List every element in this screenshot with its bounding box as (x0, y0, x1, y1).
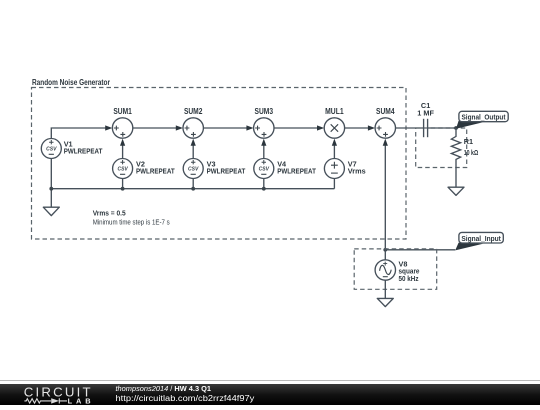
junction node V2-rail (121, 187, 125, 191)
wire to Signal_Input (385, 249, 455, 251)
arrowhead into SUM3 left (246, 125, 253, 130)
voltage source V7 (324, 159, 344, 179)
label V2 PWLREPEAT (136, 160, 175, 176)
wire bottom rail (51, 188, 334, 190)
label V7 Vrms (348, 160, 366, 176)
voltage source V3 (CSV) (183, 159, 203, 179)
wire MUL1 to SUM4 (345, 127, 369, 129)
wire V7 bottom to rail corner (333, 179, 335, 189)
label SUM4 (376, 107, 395, 116)
logo CIRCUIT text (24, 384, 91, 399)
wire SUM4 to C1 (396, 127, 424, 129)
svg-text:PWLREPEAT: PWLREPEAT (277, 166, 316, 175)
wire V8 bottom to ground (384, 280, 386, 298)
wire V3 bottom to rail (192, 179, 194, 189)
svg-text:50 kHz: 50 kHz (399, 274, 419, 283)
voltage source V2 (CSV) (113, 159, 133, 179)
capacitor C1 (424, 119, 428, 137)
label SUM3 (255, 107, 274, 116)
svg-text:CSV: CSV (259, 167, 270, 173)
junction node output (454, 126, 458, 130)
svg-text:PWLREPEAT: PWLREPEAT (136, 166, 175, 175)
flag Signal_Output (456, 111, 508, 129)
label SUM2 (184, 107, 203, 116)
dashed box around V8 (354, 249, 437, 289)
arrowhead into SUM4 left (368, 125, 375, 130)
wire V2 to SUM1 bottom (122, 145, 124, 159)
svg-text:http://circuitlab.com/cb2rrzf4: http://circuitlab.com/cb2rrzf44f97y (116, 394, 255, 403)
wire V7 to MUL1 bottom (333, 145, 335, 159)
svg-text:Random Noise Generator: Random Noise Generator (32, 77, 110, 87)
label V1 PWLREPEAT (64, 140, 103, 156)
wire C1 to output node (428, 127, 456, 129)
label V3 PWLREPEAT (207, 160, 246, 176)
junction node V8 top (383, 248, 387, 252)
svg-text:SUM2: SUM2 (184, 107, 203, 116)
svg-text:Vrms = 0.5: Vrms = 0.5 (93, 209, 126, 218)
wire V1 top to SUM1 (51, 128, 106, 138)
dashed box Random Noise Generator (32, 88, 407, 240)
wire SUM2 to SUM3 (203, 127, 247, 129)
svg-text:thompsons2014 / HW 4.3 Q1: thompsons2014 / HW 4.3 Q1 (116, 384, 212, 393)
ground under R1 (448, 187, 464, 195)
flag Signal_Input (455, 232, 503, 250)
arrowhead into SUM1 left (105, 125, 112, 130)
wire V4 bottom to rail (263, 179, 265, 189)
wire SUM1 to SUM2 (133, 127, 177, 129)
summing block SUM3 (254, 118, 274, 138)
footer separator line (0, 380, 540, 382)
svg-text:SUM4: SUM4 (376, 107, 395, 116)
arrowhead into MUL1 bottom (332, 139, 337, 146)
wire SUM3 to MUL1 (274, 127, 318, 129)
svg-text:10 kΩ: 10 kΩ (464, 148, 479, 157)
wire V1 bottom to ground (50, 159, 52, 208)
multiplier block MUL1 (324, 118, 344, 138)
ground under V1 (43, 207, 59, 215)
label MUL1 (325, 107, 344, 116)
junction node V4-rail (262, 187, 266, 191)
svg-text:PWLREPEAT: PWLREPEAT (207, 166, 246, 175)
label R1 10 kOhm (464, 137, 479, 157)
footer title text (116, 384, 255, 403)
wire V4 to SUM3 bottom (263, 145, 265, 159)
resistor R1 (451, 128, 460, 187)
svg-text:LAB: LAB (68, 397, 91, 406)
wire SUM4 bottom input vertical (384, 145, 386, 250)
label C1 1 MF (417, 101, 434, 118)
svg-text:CSV: CSV (46, 147, 57, 153)
junction node V3-rail (191, 187, 195, 191)
arrowhead into MUL1 left (317, 125, 324, 130)
annotation Vrms = 0.5 (93, 209, 126, 218)
arrowhead into SUM4 bottom (383, 139, 388, 146)
annotation minimum time step (93, 217, 170, 226)
svg-text:CSV: CSV (117, 167, 128, 173)
svg-text:R1: R1 (464, 137, 473, 146)
op-amp-like summing block SUM1 (112, 118, 132, 138)
footer bar (0, 384, 540, 405)
svg-text:SUM1: SUM1 (113, 107, 132, 116)
label Random Noise Generator (32, 77, 110, 87)
logo resistor-diode squiggle (24, 398, 67, 403)
svg-text:1 MF: 1 MF (417, 108, 434, 117)
voltage source V8 (square) (375, 250, 395, 280)
svg-text:Minimum time step is 1E-7 s: Minimum time step is 1E-7 s (93, 217, 170, 226)
svg-text:PWLREPEAT: PWLREPEAT (64, 146, 103, 155)
junction node V1-rail (49, 187, 53, 191)
arrowhead into SUM3 bottom (261, 139, 266, 146)
summing block SUM4 (375, 118, 395, 138)
svg-text:Signal_Output: Signal_Output (462, 112, 507, 121)
svg-text:Signal_Input: Signal_Input (461, 234, 501, 243)
voltage source V1 (CSV) (41, 139, 61, 159)
wire V2 bottom to rail (122, 179, 124, 189)
voltage source V4 (CSV) (254, 159, 274, 179)
ground under V8 (377, 298, 393, 306)
svg-text:SUM3: SUM3 (255, 107, 274, 116)
wire V3 to SUM2 bottom (192, 145, 194, 159)
label SUM1 (113, 107, 132, 116)
summing block SUM2 (183, 118, 203, 138)
label V8 square 50 kHz (399, 259, 420, 283)
label V4 PWLREPEAT (277, 160, 316, 176)
dashed box around C1 R1 (416, 128, 467, 168)
svg-text:Vrms: Vrms (348, 166, 366, 175)
arrowhead into SUM2 left (176, 125, 183, 130)
svg-text:MUL1: MUL1 (325, 107, 344, 116)
logo LAB text (68, 397, 91, 406)
arrowhead into SUM2 bottom (191, 139, 196, 146)
arrowhead into SUM1 bottom (120, 139, 125, 146)
svg-text:CSV: CSV (188, 167, 199, 173)
